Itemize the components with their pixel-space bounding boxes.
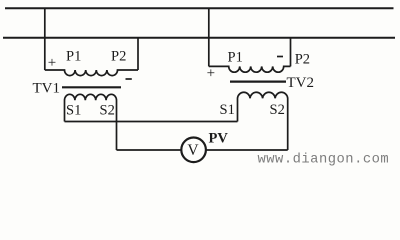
primary winding TV2 [209, 66, 291, 72]
core TV2 [230, 80, 286, 82]
wire S1-S1 rail [65, 121, 238, 123]
bus line A (top) [5, 7, 394, 9]
svg-text:P2: P2 [295, 52, 310, 68]
wire TV1 P1 to bus A [44, 8, 46, 70]
voltmeter PV circle [181, 138, 206, 163]
wire TV1 P2 to bus B [137, 38, 139, 70]
label - (TV1 P2 polarity) [126, 78, 132, 80]
svg-text:PV: PV [209, 131, 229, 147]
wire voltmeter to TV2 S2 [206, 149, 288, 151]
svg-text:P1: P1 [66, 49, 81, 65]
svg-text:TV1: TV1 [33, 81, 61, 97]
core TV1 [62, 86, 121, 88]
secondary winding TV2 [238, 92, 288, 150]
secondary winding TV1 [65, 94, 117, 150]
svg-text:P2: P2 [111, 49, 126, 65]
svg-text:S1: S1 [220, 102, 235, 118]
svg-text:S2: S2 [100, 103, 115, 119]
svg-text:S1: S1 [66, 103, 81, 119]
wire TV2 P2 to bus B [290, 38, 292, 67]
label - (TV2 P2 polarity) [277, 56, 283, 58]
svg-text:www.diangon.com: www.diangon.com [258, 152, 390, 168]
svg-text:S2: S2 [270, 102, 285, 118]
primary winding TV1 [45, 70, 138, 76]
svg-text:V: V [187, 142, 199, 159]
svg-text:TV2: TV2 [287, 75, 315, 91]
svg-text:+: + [207, 66, 215, 82]
wire TV2 P1 to bus A [208, 8, 210, 66]
svg-text:P1: P1 [228, 49, 243, 65]
svg-text:+: + [48, 55, 56, 71]
wire TV1 S2 down to voltmeter rail [117, 149, 182, 151]
bus line B (second) [3, 37, 395, 39]
